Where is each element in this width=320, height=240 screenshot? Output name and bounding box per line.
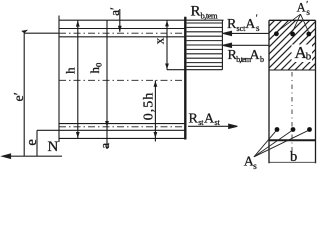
svg-text:a′: a′	[107, 7, 122, 16]
arrowhead h0 at bottom steel axis	[105, 121, 109, 127]
column section bottom edge	[269, 139, 316, 141]
beam section bottom edge	[59, 137, 187, 139]
leader lines A's	[277, 14, 309, 32]
stress block right edge	[221, 20, 223, 69]
arrowhead 0,5h bottom	[154, 132, 158, 138]
svg-text:s: s	[256, 23, 260, 33]
svg-text:b: b	[290, 149, 297, 165]
svg-text:A: A	[245, 17, 256, 32]
svg-text:s: s	[253, 161, 257, 171]
dimension line x bracket	[166, 20, 168, 69]
arrowhead h bottom	[76, 132, 80, 138]
svg-text:s: s	[306, 7, 310, 17]
diagonal hatch of compressed concrete Ab	[220, 0, 320, 75]
compression zone bottom line	[167, 69, 222, 71]
arrow Rst Ast (points right)	[188, 124, 237, 128]
beam section left edge	[58, 16, 60, 143]
svg-text:h: h	[62, 67, 77, 74]
arrow Rsct A's (points left into stress block)	[223, 31, 269, 35]
svg-text:R: R	[227, 17, 237, 32]
top rebar dots A's	[274, 31, 311, 36]
arrowhead 0,5h top	[154, 81, 158, 87]
dimension line h	[77, 20, 79, 138]
svg-text:N: N	[48, 139, 59, 155]
svg-text:A: A	[250, 48, 261, 63]
column section top edge	[269, 19, 316, 21]
stress block horizontal hatch	[187, 23, 222, 66]
mid-depth chain line	[59, 79, 185, 81]
top reinforcement strip line lower	[59, 36, 185, 38]
svg-text:b,tem: b,tem	[201, 11, 219, 21]
arrowhead e' top corner	[21, 30, 28, 34]
svg-text:b: b	[260, 55, 264, 64]
column section left edge	[268, 20, 270, 163]
svg-text:R: R	[191, 4, 201, 20]
bottom reinforcement strip line lower	[37, 129, 185, 131]
leader lines As	[254, 131, 308, 157]
dimension line e' vertical	[23, 33, 25, 156]
bottom rebar dots As	[275, 127, 312, 132]
top steel axis chain line	[59, 32, 185, 34]
white box behind Ab label	[292, 45, 313, 63]
compressed zone bottom boundary	[269, 69, 316, 71]
force arrow N	[3, 154, 63, 158]
beam section top edge	[59, 19, 224, 21]
svg-text:e′: e′	[12, 92, 27, 101]
b dimension line	[270, 161, 316, 163]
column section right edge	[315, 20, 317, 163]
dimension leader e' horizontal	[24, 32, 59, 34]
section vertical centerline	[291, 72, 293, 157]
beam section right edge	[184, 17, 186, 140]
dimension line a'	[119, 9, 121, 32]
svg-text:x: x	[152, 37, 167, 44]
dimension line h0	[106, 20, 108, 149]
svg-text:a: a	[97, 143, 112, 149]
svg-text:b: b	[306, 51, 312, 63]
svg-text:′: ′	[256, 13, 258, 23]
bottom reinforcement strip line upper	[59, 123, 185, 125]
dimension line e vertical	[36, 130, 38, 156]
arrow Rb,tem Ab (points left)	[223, 43, 269, 47]
bottom steel axis chain line	[59, 126, 185, 128]
svg-text:A: A	[204, 112, 215, 127]
arrowhead h top	[76, 21, 80, 27]
arrowhead x bottom	[165, 64, 169, 70]
svg-text:R: R	[189, 112, 199, 127]
top reinforcement strip line upper	[59, 28, 185, 30]
svg-text:A: A	[297, 1, 306, 15]
svg-text:0,5h: 0,5h	[141, 92, 156, 121]
arrowhead a'	[118, 26, 122, 32]
svg-text:st: st	[215, 118, 221, 127]
arrowhead x top	[165, 21, 169, 27]
dimension line 0,5h	[154, 80, 156, 141]
svg-text:e: e	[24, 139, 40, 145]
